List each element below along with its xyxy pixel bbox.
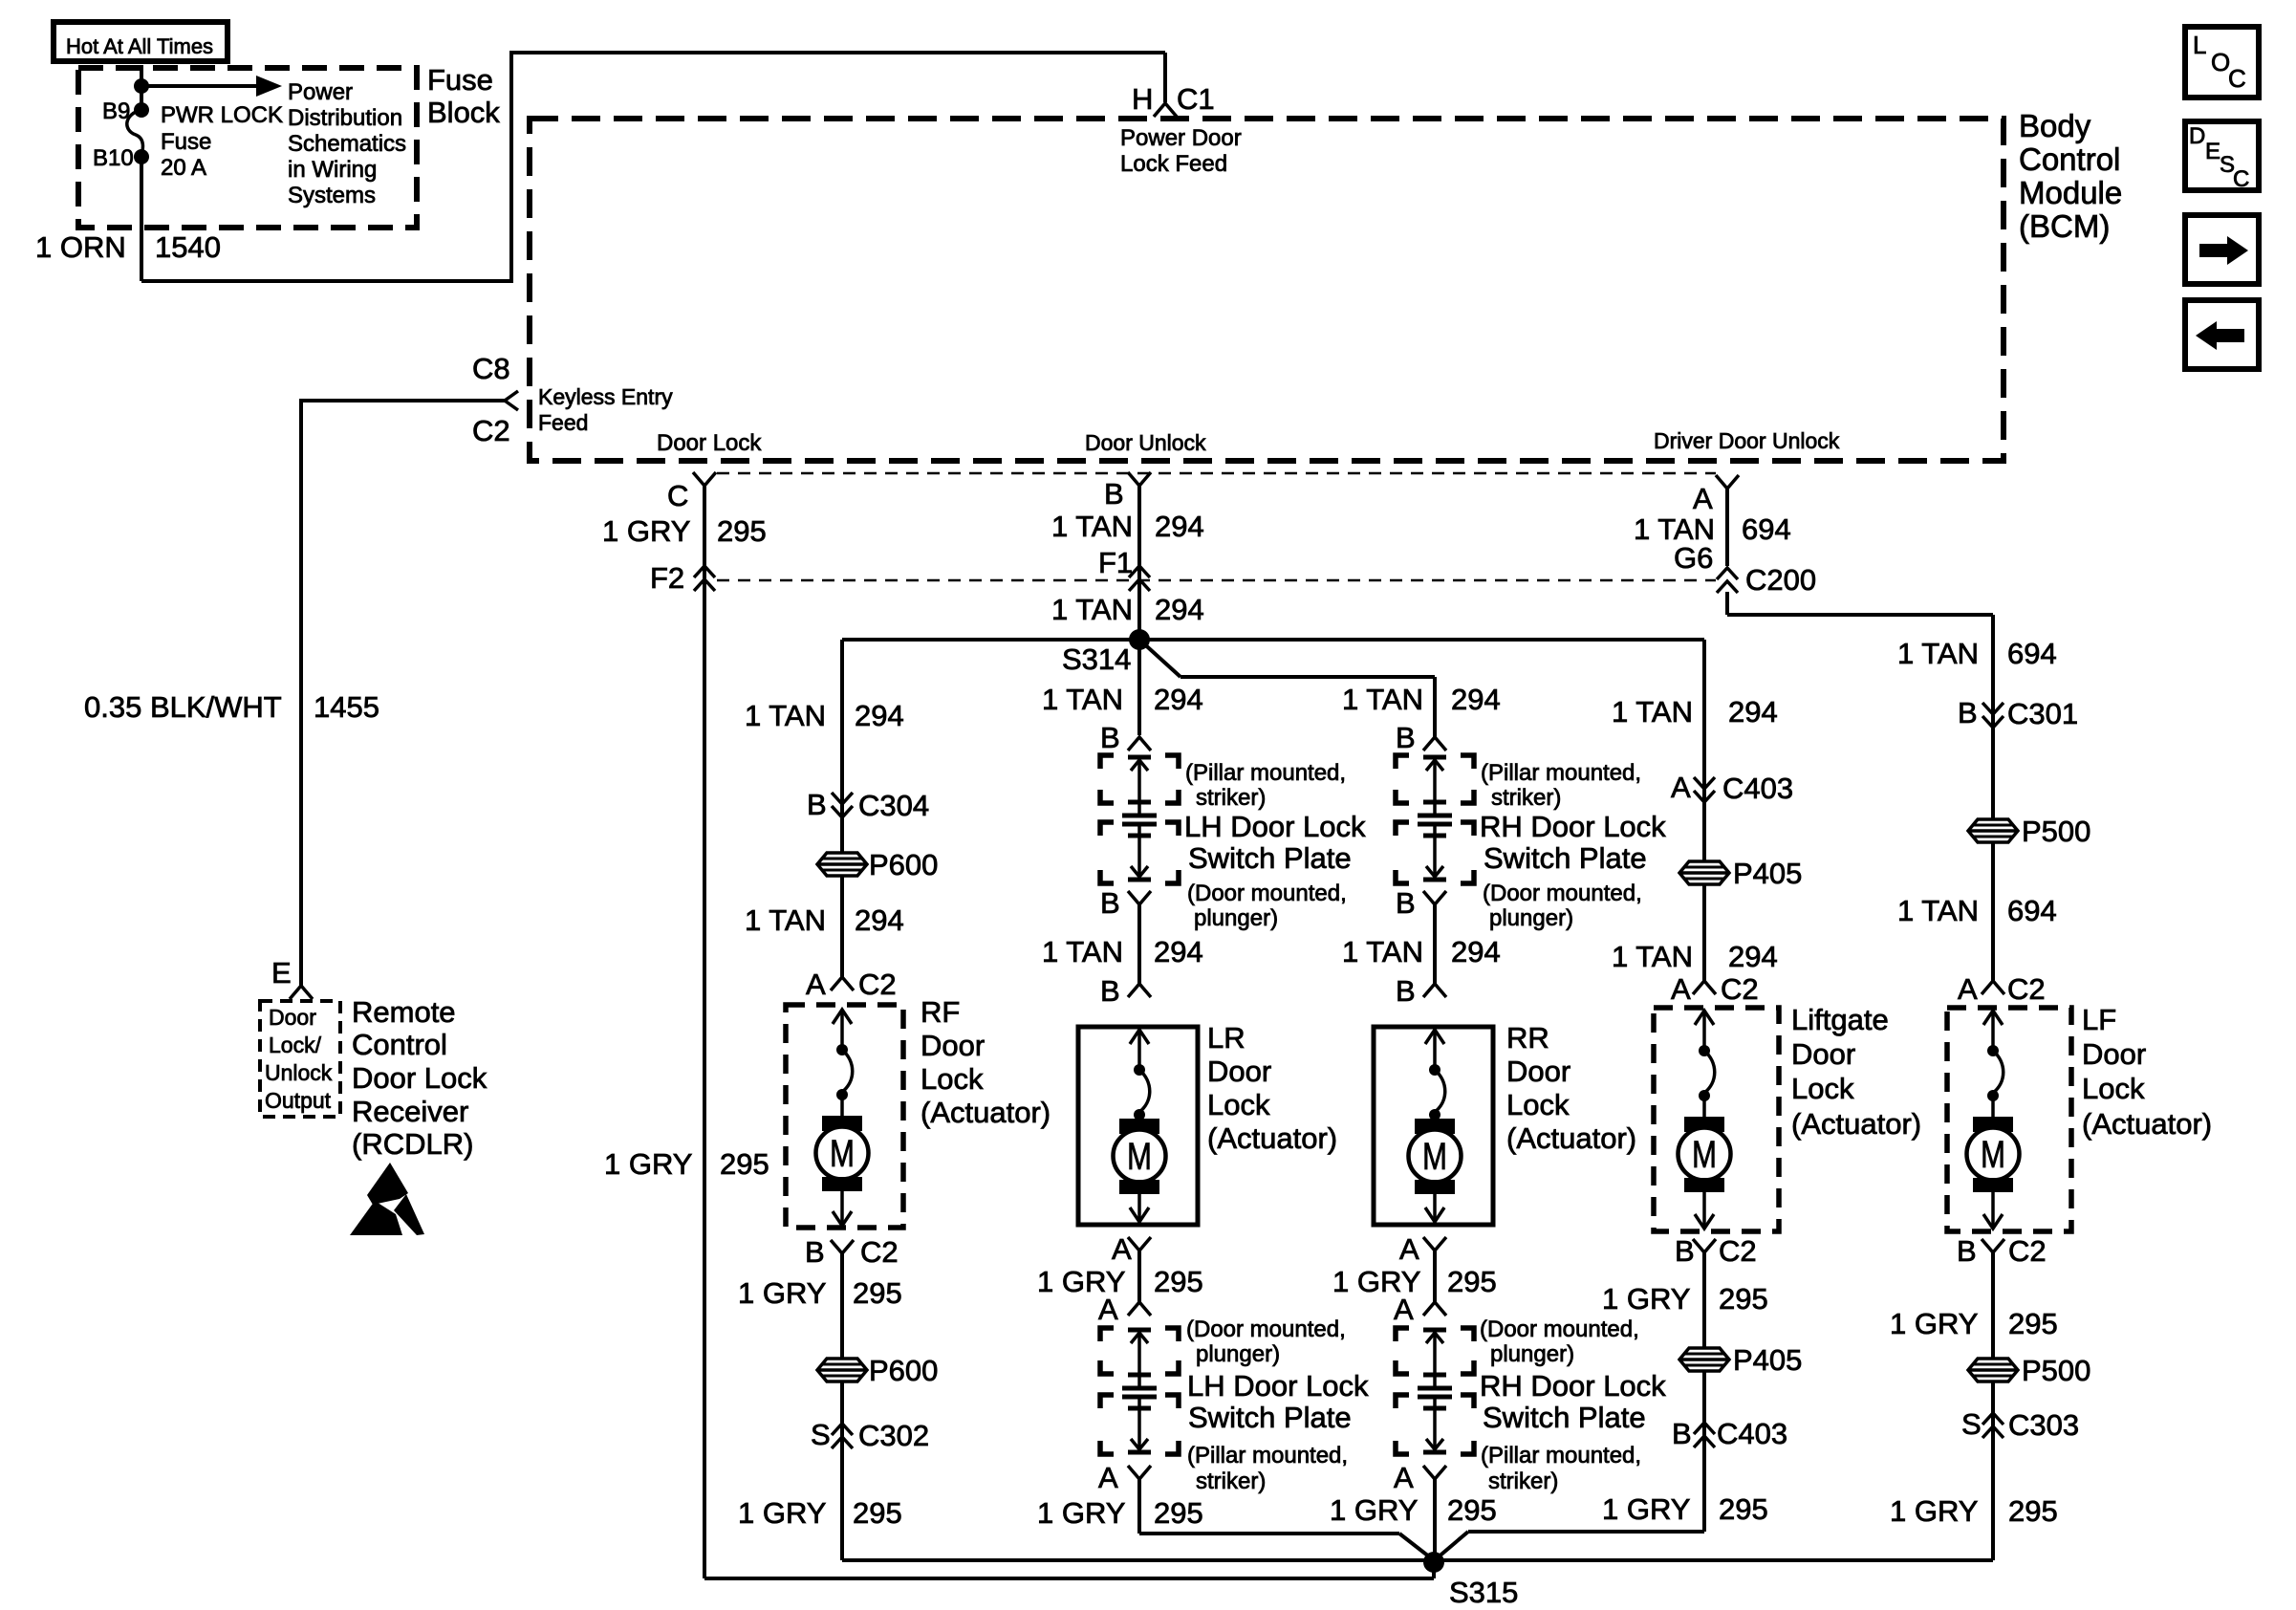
svg-text:1 GRY: 1 GRY	[1890, 1494, 1978, 1528]
RCDLR Door Lock/Unlock Output (dashed box)	[260, 1001, 340, 1117]
svg-text:Door: Door	[1207, 1055, 1271, 1088]
connector: LH switch plate lower pin A (top)	[1098, 1293, 1151, 1326]
svg-text:295: 295	[1719, 1492, 1768, 1526]
svg-text:F1: F1	[1098, 546, 1133, 579]
svg-text:in Wiring: in Wiring	[288, 157, 377, 183]
wire: LF branch from C200 down	[1727, 592, 1993, 981]
svg-text:294: 294	[855, 699, 904, 732]
svg-text:295: 295	[1154, 1265, 1203, 1298]
svg-text:Lock: Lock	[1791, 1072, 1854, 1105]
svg-text:294: 294	[1154, 683, 1203, 716]
svg-text:B: B	[1100, 721, 1120, 754]
svg-text:294: 294	[1155, 593, 1204, 626]
svg-text:A: A	[1098, 1293, 1118, 1326]
splice S315	[1423, 1552, 1518, 1609]
svg-text:B: B	[1675, 1234, 1695, 1268]
svg-text:1 TAN: 1 TAN	[1612, 695, 1693, 729]
svg-text:1 ORN: 1 ORN	[35, 230, 126, 264]
label: 1 GRY 295 (RF upper return)	[738, 1276, 902, 1310]
svg-text:RF: RF	[921, 995, 960, 1029]
svg-text:1540: 1540	[155, 230, 221, 264]
text: Body Control Module (BCM)	[2019, 108, 2122, 244]
svg-text:Block: Block	[427, 96, 500, 129]
svg-text:Lock/: Lock/	[269, 1033, 322, 1057]
svg-text:M: M	[830, 1133, 855, 1175]
svg-text:294: 294	[1154, 935, 1203, 968]
wire: LR branch vertical upper	[1137, 640, 1141, 735]
connector C403 pin A	[1671, 771, 1793, 805]
wire: door unlock TAN 294 trunk	[1137, 486, 1141, 640]
LR Door Lock Actuator (solid box)	[1078, 1027, 1198, 1225]
connector C200 pin G6	[1674, 541, 1816, 597]
thin dashed line: BCM connector C1 row	[717, 472, 1716, 475]
connector: LH switch plate lower pin A (bottom)	[1098, 1461, 1151, 1494]
svg-text:M: M	[1127, 1136, 1152, 1178]
connector: BCM C1 pin C (door lock)	[667, 472, 716, 512]
svg-text:(Actuator): (Actuator)	[921, 1096, 1051, 1129]
svg-text:(RCDLR): (RCDLR)	[352, 1127, 473, 1161]
svg-text:B: B	[1104, 477, 1124, 511]
svg-text:M: M	[1981, 1134, 2005, 1176]
label: 1 GRY 295 (LR return)	[1037, 1265, 1203, 1298]
svg-text:1 GRY: 1 GRY	[1602, 1492, 1690, 1526]
svg-text:C303: C303	[2008, 1408, 2079, 1442]
wire: RR branch vertical mid	[1433, 904, 1437, 984]
svg-text:Body: Body	[2019, 108, 2091, 143]
label: 1 TAN 294 (RF lower)	[745, 903, 904, 937]
svg-text:295: 295	[720, 1147, 769, 1181]
svg-text:A: A	[1693, 482, 1713, 515]
RR Door Lock Actuator (solid box)	[1374, 1027, 1493, 1225]
arrow: to Power Distribution Schematics	[141, 76, 282, 97]
svg-text:0.35 BLK/WHT: 0.35 BLK/WHT	[84, 690, 282, 724]
wire: keyless entry feed 0.35 BLK/WHT 1455 to RCDLR	[301, 399, 505, 986]
LH door lock switch plate symbol (lower)	[1122, 1330, 1157, 1452]
RR actuator switch and motor M	[1409, 1030, 1462, 1222]
label: 1 GRY 295 (RR bottom)	[1330, 1493, 1497, 1527]
label: 1 TAN 294 (Liftgate lower)	[1612, 940, 1778, 973]
svg-text:C: C	[2228, 64, 2246, 93]
svg-text:S314: S314	[1062, 642, 1131, 676]
wire: RR GRY return upper	[1433, 1251, 1437, 1302]
label: Fuse Block	[427, 63, 500, 129]
icon: back arrow box	[2185, 300, 2259, 369]
svg-text:Switch Plate: Switch Plate	[1188, 1401, 1352, 1434]
label: 1 GRY 295 (LF bottom)	[1890, 1494, 2058, 1528]
svg-text:B9: B9	[102, 98, 130, 124]
svg-text:Receiver: Receiver	[352, 1095, 468, 1128]
label: 1 GRY 295 (door lock feed)	[602, 514, 767, 548]
svg-text:B: B	[1396, 721, 1416, 754]
LF actuator switch and motor M	[1967, 1011, 2020, 1229]
connector: BCM C1 pin A (driver door unlock)	[1693, 475, 1739, 515]
svg-text:Lock: Lock	[921, 1062, 984, 1096]
svg-text:C301: C301	[2007, 697, 2078, 730]
LH Door Lock Switch Plate upper (dashed brackets)	[1100, 755, 1179, 883]
connector C302 pin S	[811, 1418, 929, 1452]
svg-text:694: 694	[2007, 894, 2057, 927]
svg-text:RH Door Lock: RH Door Lock	[1480, 1369, 1666, 1403]
label: 1 TAN 294 (RR mid)	[1342, 935, 1501, 968]
text: Liftgate Door Lock (Actuator)	[1791, 1003, 1921, 1141]
connector: RR actuator pin A (bottom)	[1399, 1232, 1446, 1266]
svg-text:(Pillar mounted,: (Pillar mounted,	[1187, 1443, 1348, 1469]
RH door lock switch plate symbol (upper)	[1418, 757, 1452, 880]
svg-text:(Door mounted,: (Door mounted,	[1186, 1316, 1346, 1342]
text: LH Door Lock Switch Plate (lower)	[1187, 1369, 1369, 1434]
label: 1 GRY 295 (Liftgate bottom)	[1602, 1492, 1768, 1526]
svg-text:S: S	[1961, 1407, 1982, 1441]
svg-text:(Door mounted,: (Door mounted,	[1483, 881, 1642, 906]
grommet P600 (lower)	[817, 1354, 938, 1387]
svg-text:694: 694	[2007, 637, 2057, 670]
wire: Liftgate GRY return	[1437, 1252, 1704, 1558]
svg-text:1 TAN: 1 TAN	[1042, 683, 1123, 716]
svg-text:20 A: 20 A	[161, 155, 206, 181]
connector C303 pin S	[1961, 1407, 2079, 1442]
text: Door Unlock output	[1085, 430, 1206, 455]
Body Control Module BCM (dashed box)	[530, 119, 2004, 461]
svg-text:C2: C2	[2008, 1234, 2047, 1268]
svg-text:295: 295	[1447, 1265, 1497, 1298]
svg-text:B: B	[1958, 696, 1978, 729]
text: (Pillar mounted, striker) LH lower	[1187, 1443, 1348, 1494]
svg-text:Door: Door	[1506, 1055, 1570, 1088]
svg-text:plunger): plunger)	[1196, 1341, 1280, 1367]
svg-text:1 TAN: 1 TAN	[1051, 510, 1133, 543]
wire: LR branch vertical mid	[1137, 904, 1141, 984]
svg-text:E: E	[2205, 139, 2220, 164]
connector C2 pin A (RF actuator)	[806, 968, 897, 1001]
text: (Door mounted, plunger) LH upper	[1187, 881, 1347, 931]
svg-text:Lock Feed: Lock Feed	[1120, 151, 1227, 177]
label: 1 TAN 294 (RR upper)	[1342, 683, 1501, 716]
svg-text:striker): striker)	[1488, 1469, 1558, 1494]
text: (Pillar mounted, striker) LH upper	[1185, 760, 1346, 811]
icon: DESC box	[2185, 121, 2259, 192]
svg-text:P500: P500	[2022, 815, 2090, 848]
label: 1 TAN 294 (door unlock)	[1051, 510, 1204, 543]
connector C2 pin B (LF bottom)	[1957, 1234, 2047, 1268]
svg-text:Distribution: Distribution	[288, 105, 402, 131]
wire: RF door lock branch vertical	[840, 640, 844, 977]
RH Door Lock Switch Plate upper (dashed brackets)	[1396, 755, 1474, 883]
svg-text:plunger): plunger)	[1489, 905, 1573, 931]
svg-text:294: 294	[1728, 940, 1778, 973]
svg-text:A: A	[1394, 1293, 1414, 1326]
svg-text:C200: C200	[1745, 563, 1816, 597]
connector C304 pin B	[807, 788, 929, 822]
svg-text:LR: LR	[1207, 1021, 1245, 1055]
svg-text:Lock: Lock	[1207, 1088, 1270, 1121]
text: (Pillar mounted, striker) RH lower	[1481, 1443, 1641, 1494]
connector: BCM C1 pin B (door unlock)	[1104, 472, 1151, 511]
svg-text:Unlock: Unlock	[265, 1060, 333, 1085]
svg-text:Fuse: Fuse	[161, 129, 211, 155]
svg-text:C2: C2	[472, 414, 510, 447]
label: 1 TAN 694 (LF lower)	[1897, 894, 2057, 927]
svg-text:C8: C8	[472, 352, 510, 385]
grommet P500 (upper)	[1968, 815, 2090, 848]
label: 1 GRY 295 (RF bottom)	[738, 1496, 902, 1530]
svg-text:A: A	[1098, 1461, 1118, 1494]
svg-text:295: 295	[853, 1496, 902, 1530]
svg-text:G6: G6	[1674, 541, 1713, 575]
svg-text:B: B	[1672, 1417, 1692, 1450]
svg-text:Schematics: Schematics	[288, 131, 406, 157]
text: Driver Door Unlock output	[1654, 428, 1840, 453]
wire: LR to splice S315	[1139, 1479, 1434, 1560]
connector: LR actuator pin B	[1100, 974, 1151, 1008]
text: (Door mounted, plunger) RH upper	[1483, 881, 1642, 931]
svg-text:295: 295	[853, 1276, 902, 1310]
connector C200 pin F2	[650, 561, 715, 595]
svg-text:P405: P405	[1733, 857, 1802, 890]
svg-text:F2: F2	[650, 561, 684, 595]
RH Door Lock Switch Plate lower (dashed brackets)	[1396, 1328, 1474, 1454]
wire: S314 distribution bus	[842, 638, 1704, 642]
svg-text:Door Lock: Door Lock	[352, 1061, 487, 1095]
svg-text:Door: Door	[921, 1029, 985, 1062]
svg-text:1 GRY: 1 GRY	[738, 1276, 826, 1310]
label: 1 TAN 294 (LR upper)	[1042, 683, 1203, 716]
wire: LR GRY return upper	[1137, 1251, 1141, 1302]
svg-text:B: B	[807, 788, 827, 821]
label: Hot At All Times	[54, 22, 227, 61]
LF Door Lock Actuator (dashed box)	[1947, 1008, 2071, 1231]
svg-text:Switch Plate: Switch Plate	[1483, 1401, 1646, 1434]
svg-text:C2: C2	[860, 1235, 899, 1269]
connector C2 pin B (RF actuator bottom)	[805, 1235, 899, 1269]
svg-text:295: 295	[2008, 1307, 2058, 1340]
LH Door Lock Switch Plate lower (dashed brackets)	[1100, 1328, 1179, 1454]
connector C200 pin F1	[1098, 546, 1150, 591]
text: RH Door Lock Switch Plate (lower)	[1480, 1369, 1666, 1434]
text: (Door mounted, plunger) LH lower	[1186, 1316, 1346, 1367]
svg-text:A: A	[1958, 972, 1978, 1006]
svg-text:P600: P600	[869, 1354, 938, 1387]
wire: RF GRY return	[840, 1253, 844, 1560]
svg-text:A: A	[1399, 1232, 1419, 1266]
svg-text:Hot At All Times: Hot At All Times	[66, 34, 213, 58]
svg-text:M: M	[1422, 1136, 1447, 1178]
svg-text:295: 295	[2008, 1494, 2058, 1528]
label: 0.35 BLK/WHT 1455	[84, 690, 379, 724]
svg-text:C403: C403	[1717, 1417, 1787, 1450]
svg-text:(Actuator): (Actuator)	[1506, 1121, 1636, 1155]
svg-text:LH Door Lock: LH Door Lock	[1184, 810, 1366, 843]
svg-text:294: 294	[1728, 695, 1778, 729]
text: Power Distribution Schematics in Wiring Systems	[288, 79, 406, 208]
svg-text:striker): striker)	[1196, 785, 1266, 811]
svg-text:294: 294	[1451, 935, 1501, 968]
svg-text:Lock: Lock	[2082, 1072, 2145, 1105]
svg-text:1 GRY: 1 GRY	[1037, 1496, 1125, 1530]
text: (Door mounted, plunger) RH lower	[1480, 1316, 1639, 1367]
connector: LH switch plate pin B (top)	[1100, 721, 1151, 754]
text: Remote Control Door Lock Receiver (RCDLR)	[352, 995, 487, 1161]
connector: RCDLR pin E	[271, 956, 313, 999]
connector: RH switch plate lower pin A (bottom)	[1394, 1461, 1446, 1494]
label: 1 GRY 295 (RR return)	[1332, 1265, 1497, 1298]
svg-text:1 TAN: 1 TAN	[1051, 593, 1133, 626]
label: 1 GRY 295 (Liftgate return)	[1602, 1282, 1768, 1316]
svg-text:(Actuator): (Actuator)	[1791, 1107, 1921, 1141]
svg-text:B: B	[1100, 886, 1120, 920]
grommet P405 (upper)	[1679, 857, 1802, 890]
text: (Pillar mounted, striker) RH upper	[1481, 760, 1641, 811]
svg-text:C2: C2	[858, 968, 897, 1001]
svg-text:Control: Control	[2019, 141, 2120, 177]
wire: LF GRY return	[1991, 1252, 1995, 1560]
icon: LOC box	[2185, 27, 2259, 98]
fuse block (dashed outline)	[78, 68, 417, 228]
label: 1 GRY 295 (LR bottom)	[1037, 1496, 1203, 1530]
svg-text:P500: P500	[2022, 1354, 2090, 1387]
wire: ground return bus into S315	[842, 1558, 1993, 1562]
svg-text:LH Door Lock: LH Door Lock	[1187, 1369, 1369, 1403]
svg-text:Switch Plate: Switch Plate	[1188, 841, 1352, 875]
svg-text:C2: C2	[1719, 1234, 1757, 1268]
connector C2 pin A (Liftgate actuator)	[1671, 972, 1759, 1006]
svg-text:(Pillar mounted,: (Pillar mounted,	[1481, 760, 1641, 786]
connector C403 pin B (return)	[1672, 1417, 1787, 1450]
svg-text:Power: Power	[288, 79, 353, 105]
svg-text:C304: C304	[858, 789, 929, 822]
svg-text:A: A	[1394, 1461, 1414, 1494]
svg-text:1 GRY: 1 GRY	[604, 1147, 692, 1181]
svg-text:1 TAN: 1 TAN	[1342, 935, 1423, 968]
svg-text:(Door mounted,: (Door mounted,	[1480, 1316, 1639, 1342]
svg-text:B: B	[1396, 886, 1416, 920]
svg-text:M: M	[1692, 1134, 1717, 1176]
text: LH Door Lock Switch Plate (upper)	[1184, 810, 1366, 875]
svg-text:1 TAN: 1 TAN	[1612, 940, 1693, 973]
connector: C8/C2 keyless entry feed	[472, 352, 673, 447]
svg-text:(Actuator): (Actuator)	[1207, 1121, 1337, 1155]
wire: driver door unlock TAN 694 down to C200	[1725, 489, 1729, 566]
node: feed junction dot	[134, 78, 149, 94]
svg-text:Driver Door Unlock: Driver Door Unlock	[1654, 428, 1840, 453]
connector: H / C1 at BCM	[1132, 82, 1215, 117]
RF actuator switch and motor M	[816, 1010, 869, 1226]
label: 1 ORN 1540	[35, 230, 221, 264]
svg-text:1 TAN: 1 TAN	[1897, 637, 1979, 670]
RF Door Lock Actuator (dashed box)	[786, 1005, 903, 1228]
svg-text:P600: P600	[869, 848, 938, 881]
svg-text:Fuse: Fuse	[427, 63, 493, 97]
svg-text:C2: C2	[2007, 972, 2046, 1006]
text: Power Door Lock Feed	[1120, 125, 1242, 177]
svg-text:S: S	[811, 1418, 831, 1451]
svg-text:E: E	[271, 956, 292, 990]
svg-text:Liftgate: Liftgate	[1791, 1003, 1889, 1036]
svg-text:Remote: Remote	[352, 995, 456, 1029]
grommet P500 (lower)	[1968, 1354, 2090, 1387]
svg-text:Control: Control	[352, 1028, 447, 1061]
svg-text:Door Unlock: Door Unlock	[1085, 430, 1206, 455]
svg-text:295: 295	[1719, 1282, 1768, 1316]
svg-text:1 GRY: 1 GRY	[1602, 1282, 1690, 1316]
wire: RR to splice S315	[1433, 1479, 1437, 1560]
svg-text:D: D	[2189, 123, 2205, 149]
svg-text:C2: C2	[1721, 972, 1759, 1006]
svg-text:Keyless Entry: Keyless Entry	[538, 384, 673, 409]
ESD sensitive device symbol	[350, 1163, 424, 1235]
svg-text:Output: Output	[265, 1088, 332, 1113]
svg-text:1 TAN: 1 TAN	[1042, 935, 1123, 968]
svg-text:B: B	[1100, 974, 1120, 1008]
svg-text:C1: C1	[1177, 82, 1215, 116]
wire: S314 branch diagonal to RR/RH column	[1139, 640, 1435, 677]
svg-text:(BCM): (BCM)	[2019, 208, 2110, 244]
wire: fuse output circuit 1540 to BCM connector C1 pin H	[141, 53, 1165, 283]
thin dashed line: C200 connector row	[717, 579, 1716, 582]
svg-text:1 GRY: 1 GRY	[1890, 1307, 1978, 1340]
label: 1 GRY 295 (trunk mid)	[604, 1147, 769, 1181]
svg-text:plunger): plunger)	[1490, 1341, 1574, 1367]
svg-text:C: C	[2233, 166, 2249, 192]
svg-text:294: 294	[1155, 510, 1204, 543]
grommet P600 (upper)	[817, 848, 938, 881]
svg-text:1 TAN: 1 TAN	[745, 699, 826, 732]
svg-text:(Door mounted,: (Door mounted,	[1187, 881, 1347, 906]
splice S314	[1062, 629, 1150, 676]
svg-text:1 GRY: 1 GRY	[738, 1496, 826, 1530]
svg-text:plunger): plunger)	[1194, 905, 1278, 931]
svg-text:(Pillar mounted,: (Pillar mounted,	[1185, 760, 1346, 786]
svg-text:(Pillar mounted,: (Pillar mounted,	[1481, 1443, 1641, 1469]
wire: Liftgate branch vertical	[1702, 640, 1706, 981]
svg-text:A: A	[806, 968, 826, 1001]
svg-text:C302: C302	[858, 1419, 929, 1452]
text: LF Door Lock (Actuator)	[2082, 1003, 2212, 1141]
label: 1 GRY 295 (LF return)	[1890, 1307, 2058, 1340]
connector C2 pin B (Liftgate bottom)	[1675, 1234, 1757, 1268]
connector: RR actuator pin B	[1396, 974, 1446, 1008]
svg-text:Feed: Feed	[538, 410, 588, 435]
svg-text:Door Lock: Door Lock	[657, 430, 762, 456]
text: RR Door Lock (Actuator)	[1506, 1021, 1636, 1155]
fuse PWR LOCK 20 A (terminals B9/B10)	[93, 98, 283, 181]
text: RF Door Lock (Actuator)	[921, 995, 1051, 1129]
svg-text:295: 295	[1447, 1493, 1497, 1527]
svg-text:295: 295	[717, 514, 767, 548]
Liftgate Door Lock Actuator (dashed box)	[1654, 1008, 1779, 1231]
text: LR Door Lock (Actuator)	[1207, 1021, 1337, 1155]
label: 1 TAN 294 (Liftgate upper)	[1612, 695, 1778, 729]
svg-text:S315: S315	[1449, 1576, 1518, 1609]
svg-text:RR: RR	[1506, 1021, 1549, 1055]
svg-text:694: 694	[1742, 512, 1791, 546]
svg-text:A: A	[1671, 771, 1691, 804]
svg-text:P405: P405	[1733, 1343, 1802, 1377]
svg-text:Door: Door	[269, 1005, 316, 1030]
connector: LH switch plate pin B (bottom)	[1100, 886, 1151, 920]
text: RH Door Lock Switch Plate (upper)	[1480, 810, 1666, 875]
svg-text:striker): striker)	[1491, 785, 1561, 811]
connector: LR actuator pin A (bottom)	[1112, 1232, 1151, 1266]
svg-text:C403: C403	[1722, 772, 1793, 805]
label: 1 TAN 294 (below C200)	[1051, 593, 1204, 626]
label: 1 TAN 294 (RF upper)	[745, 699, 904, 732]
label: 1 TAN 694 (LF top)	[1897, 637, 2057, 670]
LH door lock switch plate symbol (upper)	[1122, 757, 1157, 880]
grommet P405 (lower)	[1679, 1343, 1802, 1377]
wire: RR branch vertical upper	[1433, 677, 1437, 737]
svg-text:H: H	[1132, 82, 1153, 116]
text: Door Lock output	[657, 430, 762, 456]
